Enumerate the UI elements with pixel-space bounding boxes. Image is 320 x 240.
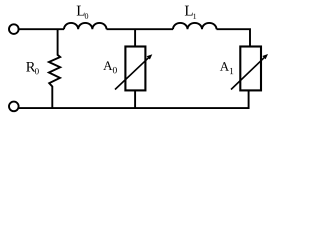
svg-text:L1: L1: [184, 4, 196, 21]
svg-text:A0: A0: [103, 58, 117, 76]
svg-text:L0: L0: [76, 3, 88, 20]
svg-text:R0: R0: [26, 59, 40, 76]
svg-text:A1: A1: [220, 59, 234, 77]
